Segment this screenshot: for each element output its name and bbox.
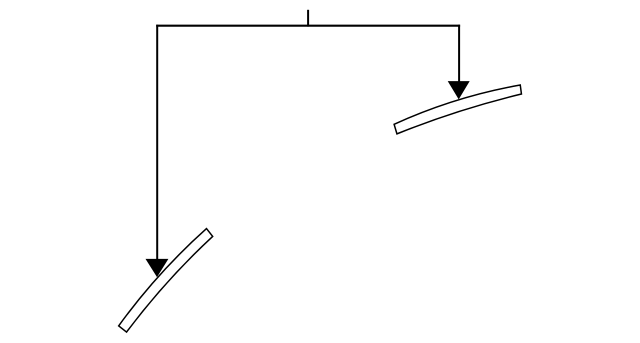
right arrowhead	[449, 82, 469, 99]
horizontal bar	[156, 25, 460, 27]
right curved band	[394, 85, 521, 134]
right drop wire	[458, 25, 460, 84]
support tick (top center hanger wire)	[307, 10, 309, 27]
left drop wire	[156, 25, 158, 262]
left curved band	[119, 229, 213, 333]
left arrowhead	[146, 259, 167, 276]
